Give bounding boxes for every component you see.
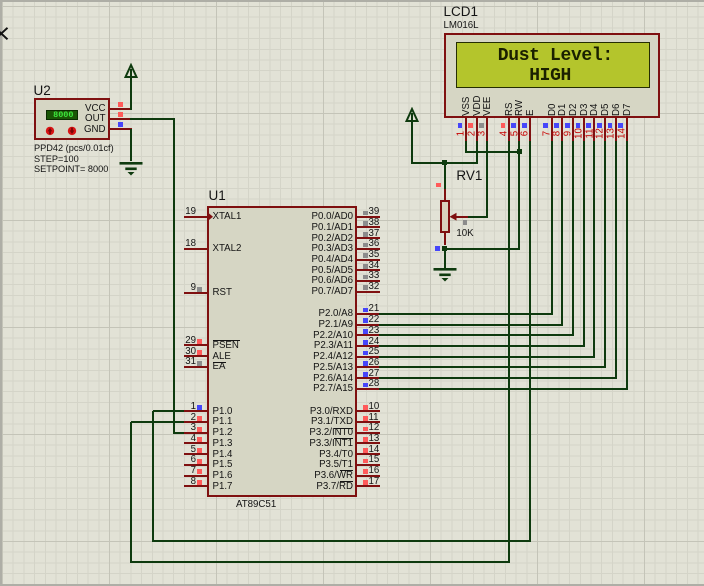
U1 INT1 overline	[334, 438, 354, 439]
U1 pin 3 (P1.2)	[184, 432, 208, 434]
U1 pin 5 (P1.4)	[184, 453, 208, 455]
U1 pin 1 (P1.0)	[184, 410, 208, 412]
U1 PSEN overline	[213, 340, 240, 341]
wire LCD RS to U1 P1.1	[508, 141, 510, 563]
MCU U1 AT89C51 body	[207, 206, 357, 497]
U2 GND pin stub	[110, 128, 132, 130]
LCD1 pin 14 (D7)	[626, 118, 628, 142]
U1 pin 4 (P1.3)	[184, 442, 208, 444]
U2 type label PPD42	[34, 144, 114, 153]
LCD text line 1	[498, 47, 613, 65]
U1 pin 26 (P2.5/A13)	[357, 366, 380, 368]
U1 pin 23 (P2.2/A10)	[357, 334, 380, 336]
origin marker X	[0, 0, 20, 50]
U1 pin 39 (P0.0/AD0)	[357, 216, 380, 218]
junction VDD/RV1	[442, 160, 447, 165]
potentiometer RV1 label	[456, 169, 482, 183]
U1 pin 2 (P1.1)	[184, 421, 208, 423]
wire power to U2 VCC	[130, 77, 132, 110]
RV1 body	[440, 200, 450, 234]
LCD text line 2	[529, 67, 571, 85]
power symbol (U2 VCC)	[118, 63, 144, 81]
wire junction to RV1 top	[444, 163, 446, 190]
sheet bottom edge	[0, 584, 704, 586]
U1 XTAL1 clock arrowhead	[208, 212, 218, 222]
LCD1 screen	[456, 42, 651, 89]
wire U1 P2.1 to LCD D1	[379, 324, 563, 326]
sheet left edge	[0, 0, 2, 586]
sensor U2 PPD42 body	[34, 98, 110, 141]
LCD1 pin 13 (D6)	[615, 118, 617, 142]
LCD1 pin 4 (RS)	[508, 118, 510, 142]
wire U1 P2.4 to LCD D4	[379, 356, 595, 358]
wire LCD VEE to RV1 wiper	[486, 141, 488, 218]
wire U1 P2.7 to LCD D7	[379, 388, 628, 390]
U1 pin 16 (P3.6/WR)	[357, 475, 380, 477]
U1 pin 15 (P3.5/T1)	[357, 464, 380, 466]
U1 pin 25 (P2.4/A12)	[357, 356, 380, 358]
wire RV1 bottom to ground	[444, 249, 446, 268]
wire power arrow down	[411, 121, 413, 164]
LCD1 pin 3 (VEE)	[486, 118, 488, 142]
wire U1 P2.3 to LCD D3	[379, 345, 585, 347]
U1 pin 29 (PSEN)	[184, 344, 208, 346]
U2 property SETPOINT	[34, 165, 108, 174]
RV1 value 10K	[456, 229, 473, 239]
sensor U2 label	[34, 84, 51, 98]
U1 pin 24 (P2.3/A11)	[357, 345, 380, 347]
wire LCD VSS to RW column	[465, 141, 467, 153]
U1 pin 17 (P3.7/RD)	[357, 485, 380, 487]
U2 pin name GND	[66, 125, 106, 135]
U1 pin 30 (ALE)	[184, 355, 208, 357]
U1 pin 27 (P2.6/A14)	[357, 377, 380, 379]
U1 pin 18 (XTAL2)	[184, 248, 208, 250]
U1 pin 21 (P2.0/A8)	[357, 313, 380, 315]
U1 pin 9 (RST)	[184, 292, 208, 294]
U1 pin 32 (P0.7/AD7)	[357, 291, 380, 293]
RV1 wiper red segment	[455, 216, 468, 218]
U1 pin 6 (P1.5)	[184, 464, 208, 466]
U2 pin name VCC	[66, 104, 106, 114]
LCD1 pin 9 (D2)	[572, 118, 574, 142]
U2 down button	[64, 123, 84, 143]
U1 pin 33 (P0.6/AD6)	[357, 280, 380, 282]
U1 pin 10 (P3.0/RXD)	[357, 410, 380, 412]
U2 OUT pin stub	[110, 118, 131, 120]
sheet top edge	[0, 0, 704, 2]
MCU U1 label	[209, 189, 226, 203]
U1 pin 8 (P1.7)	[184, 485, 208, 487]
U1 pin 35 (P0.4/AD4)	[357, 259, 380, 261]
RV1 wiper arrow	[449, 210, 471, 224]
U1 WR overline	[340, 470, 354, 471]
junction VSS/RW	[517, 149, 522, 154]
U2 value display 8000	[46, 110, 79, 121]
LCD1 pin 12 (D5)	[604, 118, 606, 142]
ground symbol (U2)	[116, 161, 146, 179]
U2 VCC pin stub	[110, 108, 132, 110]
U1 EA overline	[213, 362, 227, 363]
ground symbol (RV1)	[430, 267, 460, 285]
wire VDD rail to LCD VDD	[411, 162, 477, 164]
LCD1 type LM016L	[444, 21, 479, 31]
U1 pin 22 (P2.1/A9)	[357, 324, 380, 326]
U1 pin 31 (EA)	[184, 366, 208, 368]
LCD1 pin 6 (E)	[529, 118, 531, 142]
junction RV1 bottom	[442, 246, 447, 251]
U1 pin 34 (P0.5/AD5)	[357, 269, 380, 271]
U1 pin 38 (P0.1/AD1)	[357, 226, 380, 228]
LCD1 LM016L body	[444, 33, 661, 119]
RV1 top pin	[444, 189, 446, 201]
LCD1 pin 2 (VDD)	[476, 118, 478, 142]
wire U2 GND to ground	[130, 129, 132, 162]
RV1 bottom pin	[444, 233, 446, 246]
LCD1 label	[444, 5, 479, 19]
wire U1 P2.2 to LCD D2	[379, 334, 574, 336]
U1 pin 36 (P0.3/AD3)	[357, 248, 380, 250]
LCD1 pin 5 (RW)	[518, 118, 520, 142]
wire U2 OUT to U1 P1.2	[130, 118, 175, 120]
U2 property STEP	[34, 155, 79, 164]
LCD1 pin 1 (VSS)	[465, 118, 467, 142]
power symbol (VDD rail)	[399, 107, 425, 125]
LCD1 pin 8 (D1)	[561, 118, 563, 142]
U2 pin name OUT	[66, 114, 106, 124]
U1 pin 11 (P3.1/TXD)	[357, 421, 380, 423]
U1 RD overline	[340, 481, 354, 482]
wire LCD RW down to RV1 bottom rail	[518, 141, 520, 250]
U2 up button	[42, 123, 62, 143]
wire U1 P2.6 to LCD D6	[379, 377, 617, 379]
LCD1 pin 11 (D4)	[593, 118, 595, 142]
LCD1 pin 7 (D0)	[551, 118, 553, 142]
wire LCD E to U1 P1.0	[529, 141, 531, 542]
U1 pin 12 (P3.2/INT0)	[357, 432, 380, 434]
U1 pin 14 (P3.4/T0)	[357, 453, 380, 455]
U1 pin 28 (P2.7/A15)	[357, 388, 380, 390]
U1 pin 7 (P1.6)	[184, 475, 208, 477]
wire U1 P2.5 to LCD D5	[379, 366, 606, 368]
wire U1 P2.0 to LCD D0	[379, 313, 553, 315]
U1 pin 37 (P0.2/AD2)	[357, 237, 380, 239]
U1 type label AT89C51	[236, 500, 276, 510]
U1 pin 19 (XTAL1)	[184, 216, 208, 218]
LCD1 pin 10 (D3)	[583, 118, 585, 142]
U1 pin 13 (P3.3/INT1)	[357, 442, 380, 444]
U1 INT0 overline	[334, 428, 354, 429]
